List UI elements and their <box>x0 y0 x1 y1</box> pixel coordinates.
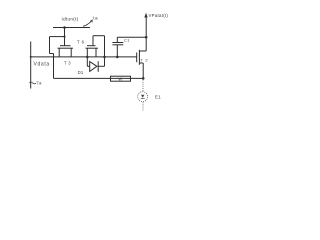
svg-text:Vdata: Vdata <box>34 62 50 68</box>
svg-text:VPatat(t): VPatat(t) <box>149 13 169 18</box>
svg-text:T 2: T 2 <box>140 57 148 62</box>
svg-text:T 6: T 6 <box>77 40 85 45</box>
svg-text:T 3: T 3 <box>64 61 71 66</box>
svg-text:E1: E1 <box>155 95 161 100</box>
svg-text:ta: ta <box>93 16 98 21</box>
svg-text:Idtun(t): Idtun(t) <box>62 16 79 21</box>
svg-text:D1: D1 <box>78 70 84 75</box>
svg-text:C1: C1 <box>124 37 130 42</box>
svg-text:7a: 7a <box>36 81 42 86</box>
